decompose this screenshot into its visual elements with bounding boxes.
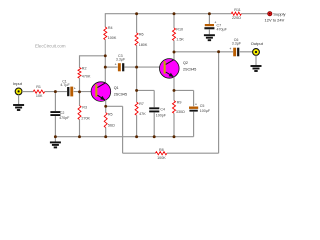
wire Q1 emitter to feedback loop xyxy=(106,106,123,153)
svg-text:470K: 470K xyxy=(82,75,91,79)
ground (C7) xyxy=(204,34,215,36)
svg-text:47K: 47K xyxy=(139,112,146,116)
capacitor C1 4.7µF xyxy=(60,80,76,97)
svg-text:3.3µF: 3.3µF xyxy=(232,41,242,45)
capacitor C7 470µF xyxy=(204,14,227,35)
transistor Q1 2SC945 xyxy=(91,82,127,107)
junction xyxy=(104,54,107,57)
transistor Q2 2SC945 xyxy=(160,52,197,90)
wire Q2 emitter to C5 xyxy=(174,89,194,91)
svg-text:C5: C5 xyxy=(200,104,205,108)
svg-text:+: + xyxy=(229,47,231,51)
resistor R8 100K xyxy=(155,148,167,160)
resistor R2 470K xyxy=(78,55,91,92)
svg-text:4.7µF: 4.7µF xyxy=(60,83,70,87)
junction xyxy=(54,90,57,93)
wire input to Q1 base xyxy=(45,91,96,93)
svg-text:100K: 100K xyxy=(108,36,117,40)
svg-text:R5: R5 xyxy=(108,113,113,117)
wire ground rail xyxy=(55,136,193,138)
svg-text:R10: R10 xyxy=(176,27,183,31)
junction xyxy=(104,135,107,138)
svg-text:100µF: 100µF xyxy=(200,109,211,113)
junction xyxy=(135,66,138,69)
capacitor C2 470pF xyxy=(50,92,70,137)
resistor R6 180K xyxy=(135,13,148,67)
svg-text:R2: R2 xyxy=(82,66,87,70)
input terminal xyxy=(15,88,22,95)
svg-text:220Ω: 220Ω xyxy=(232,16,241,20)
svg-text:2SC945: 2SC945 xyxy=(183,67,196,71)
svg-text:R11: R11 xyxy=(234,8,241,12)
svg-text:Q1: Q1 xyxy=(114,86,119,90)
supply terminal xyxy=(268,12,272,16)
junction xyxy=(135,89,138,92)
resistor R5 56Ω xyxy=(104,106,115,136)
wire feedback bottom right xyxy=(167,52,219,154)
svg-text:+: + xyxy=(195,103,197,107)
svg-text:R6: R6 xyxy=(139,32,144,36)
junction xyxy=(135,135,138,138)
svg-text:Supply: Supply xyxy=(273,12,285,17)
capacitor C4 100pF xyxy=(137,90,167,136)
svg-text:R4: R4 xyxy=(108,26,113,30)
junction xyxy=(173,12,176,15)
svg-text:Q2: Q2 xyxy=(183,61,188,65)
wire Q2 base divider xyxy=(136,67,138,90)
svg-text:56Ω: 56Ω xyxy=(108,124,115,128)
junction xyxy=(173,135,176,138)
wire Q1 collector line xyxy=(104,56,106,83)
wire R2 to collector node xyxy=(80,55,106,57)
ground (C2) xyxy=(50,137,61,148)
ground (input) xyxy=(13,95,24,110)
svg-text:Input: Input xyxy=(13,81,23,86)
svg-text:Output: Output xyxy=(251,41,264,46)
svg-text:R8: R8 xyxy=(159,148,164,152)
junction xyxy=(104,105,107,108)
svg-text:100pF: 100pF xyxy=(156,113,167,117)
junction xyxy=(173,51,176,54)
svg-text:C2: C2 xyxy=(60,111,65,115)
resistor R10 1.5K xyxy=(173,13,185,52)
svg-text:470µF: 470µF xyxy=(217,28,228,32)
wire output xyxy=(174,51,253,53)
ground (output) xyxy=(251,55,262,71)
svg-text:100K: 100K xyxy=(157,156,166,160)
svg-text:12V to 24V: 12V to 24V xyxy=(265,18,285,23)
svg-text:R1: R1 xyxy=(36,85,41,89)
capacitor C5 100µF xyxy=(189,90,211,136)
svg-text:+: + xyxy=(115,62,117,66)
svg-text:+: + xyxy=(74,87,76,91)
svg-text:ElecCircuit.com: ElecCircuit.com xyxy=(35,43,66,48)
output terminal xyxy=(253,49,260,56)
svg-text:330Ω: 330Ω xyxy=(176,110,185,114)
svg-text:R3: R3 xyxy=(82,105,87,109)
svg-text:1.5K: 1.5K xyxy=(176,38,184,42)
junction xyxy=(104,66,107,69)
svg-text:2SC945: 2SC945 xyxy=(114,93,127,97)
wire supply rail top xyxy=(105,13,268,15)
junction xyxy=(78,135,81,138)
resistor R4 100K xyxy=(104,13,117,56)
svg-text:R7: R7 xyxy=(139,102,144,106)
svg-text:3.3µF: 3.3µF xyxy=(116,58,126,62)
junction xyxy=(153,135,156,138)
resistor R11 220Ω xyxy=(231,8,241,20)
capacitor C6 3.3µF xyxy=(229,38,241,57)
junction xyxy=(217,50,220,53)
capacitor C3 3.3µF xyxy=(105,54,163,72)
svg-text:10K: 10K xyxy=(36,94,43,98)
svg-text:180K: 180K xyxy=(139,43,148,47)
svg-text:470pF: 470pF xyxy=(59,116,70,120)
junction xyxy=(208,12,211,15)
svg-text:C4: C4 xyxy=(160,108,165,112)
resistor R1 10K xyxy=(22,85,45,98)
junction xyxy=(54,135,57,138)
junction xyxy=(173,89,176,92)
svg-text:R9: R9 xyxy=(177,100,182,104)
resistor R3 270K xyxy=(78,92,91,137)
resistor R9 330Ω xyxy=(173,90,186,136)
resistor R7 47K xyxy=(135,90,146,136)
wire feedback bottom left xyxy=(123,152,156,154)
junction xyxy=(78,90,81,93)
junction xyxy=(135,12,138,15)
svg-text:270K: 270K xyxy=(81,116,90,120)
